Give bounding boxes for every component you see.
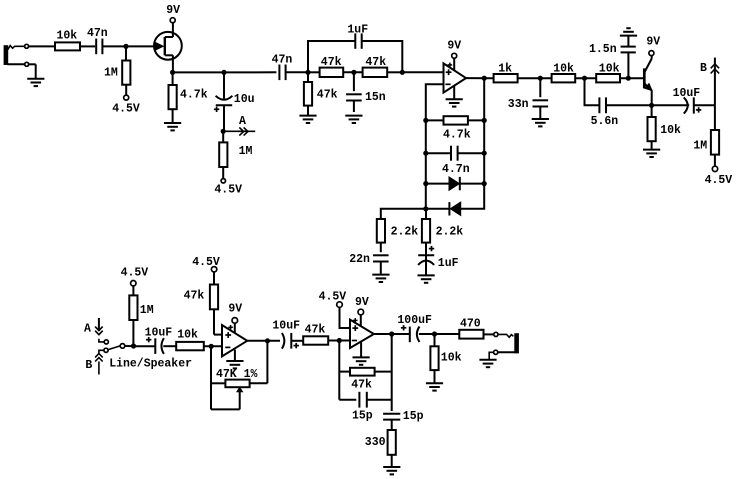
- terminal 9V (Q2): [646, 35, 660, 55]
- terminal 4.5V (node A): [214, 179, 242, 197]
- node (Q2 base): [626, 76, 631, 81]
- resistor 10k (emitter): [648, 105, 682, 149]
- node (Q1 source): [170, 70, 175, 75]
- node (Q2 emitter): [649, 103, 654, 108]
- wire to node6: [343, 71, 362, 73]
- capacitor 1uF (electrolytic fb): [418, 243, 459, 275]
- node (10u top): [221, 70, 226, 75]
- node fb R1: [482, 118, 487, 123]
- wire U2 out: [247, 340, 280, 342]
- capacitor 4.7n (feedback): [426, 120, 484, 175]
- node (U3 out): [389, 331, 394, 336]
- ground (U2): [226, 350, 243, 369]
- svg-text:47n: 47n: [87, 27, 108, 40]
- ground (U3): [353, 342, 370, 365]
- wire 470 to jack: [484, 333, 494, 335]
- wire common to node: [125, 345, 136, 347]
- capacitor 10uF (mid, electrolytic): [272, 319, 303, 348]
- resistor 2.2k (right): [422, 209, 463, 243]
- svg-text:1M: 1M: [104, 67, 118, 80]
- resistor 330: [365, 430, 396, 466]
- wire 10k to node: [204, 345, 222, 347]
- ground (output jack): [479, 360, 496, 367]
- wire node to JFET gate: [126, 45, 155, 47]
- svg-text:9V: 9V: [355, 296, 369, 309]
- svg-text:9V: 9V: [447, 40, 461, 53]
- svg-text:10k: 10k: [441, 351, 462, 364]
- ground (33n): [532, 119, 549, 126]
- svg-text:4.5V: 4.5V: [192, 256, 220, 269]
- wire 47n to node gate: [102, 45, 126, 47]
- ground (input jack): [27, 79, 44, 86]
- svg-text:2.2k: 2.2k: [391, 226, 419, 239]
- wire 1uF top rail: [308, 41, 402, 72]
- svg-text:15p: 15p: [403, 410, 424, 423]
- svg-text:1.5n: 1.5n: [589, 43, 617, 56]
- ground (emitter 10k): [643, 150, 660, 157]
- capacitor 10u (electrolytic): [214, 72, 255, 131]
- svg-text:4.5V: 4.5V: [121, 267, 149, 280]
- wire U1 inverting: [426, 84, 444, 120]
- resistor 1M (out bias): [693, 105, 719, 166]
- svg-text:4.5V: 4.5V: [112, 102, 140, 115]
- svg-text:47k: 47k: [317, 88, 338, 101]
- capacitor 5.6n: [585, 78, 652, 128]
- resistor 470: [459, 318, 483, 339]
- svg-text:10uF: 10uF: [272, 319, 300, 332]
- svg-text:9V: 9V: [166, 4, 180, 17]
- svg-text:47K 1%: 47K 1%: [216, 368, 258, 381]
- svg-text:1M: 1M: [140, 304, 154, 317]
- ground (15n): [345, 116, 362, 123]
- node (5.6n tap): [582, 76, 587, 81]
- resistor 10k (b): [596, 63, 620, 83]
- svg-text:15p: 15p: [352, 409, 373, 422]
- node (switch common): [131, 343, 136, 348]
- resistor 47k (series 1): [308, 56, 343, 77]
- svg-text:Line/Speaker: Line/Speaker: [109, 357, 192, 370]
- svg-text:10k: 10k: [599, 63, 620, 76]
- potentiometer 47K 1%: [211, 341, 267, 410]
- capacitor 1.5n: [589, 36, 636, 79]
- wire 4.5V to op3 +: [319, 290, 350, 328]
- node (output tap): [432, 331, 437, 336]
- resistor 1M (gate bias): [104, 46, 130, 95]
- resistor 47k (shunt to gnd): [304, 72, 338, 115]
- node fb L4: [423, 206, 428, 211]
- svg-text:4.5V: 4.5V: [705, 174, 733, 187]
- wire 10k to C 47n: [80, 45, 95, 47]
- resistor 4.7k (Q1 source): [169, 72, 208, 122]
- switch common contact: [120, 344, 125, 349]
- tag B arrow (top): [700, 58, 719, 106]
- op-amp U1: [444, 63, 467, 93]
- ground (U1): [446, 86, 463, 107]
- node A (junction): [221, 129, 226, 134]
- node (15n tap): [351, 70, 356, 75]
- terminal 9V (U1): [447, 40, 461, 71]
- wire op3 fb rail: [391, 334, 393, 411]
- resistor 10k (a): [552, 63, 576, 83]
- resistor 10k (input): [55, 30, 80, 51]
- wire A to switch: [99, 339, 104, 342]
- wire 47k to node: [328, 340, 350, 342]
- transistor Q1 JFET: [154, 23, 182, 73]
- svg-text:9V: 9V: [646, 35, 660, 48]
- input jack J1: [4, 44, 36, 78]
- svg-text:A: A: [84, 323, 91, 336]
- tag B arrow (bottom): [85, 350, 103, 374]
- svg-text:B: B: [700, 62, 707, 75]
- terminal 4.5V (bottom 1M): [121, 267, 149, 286]
- svg-text:A: A: [239, 115, 246, 128]
- transistor Q2: [644, 56, 652, 106]
- node fb L3: [423, 181, 428, 186]
- ground (4.7k source): [164, 123, 181, 130]
- node (op-amp + in): [400, 70, 405, 75]
- wire fb bottom left: [381, 209, 426, 219]
- label Line/Speaker: [109, 357, 192, 370]
- resistor 2.2k (left): [377, 219, 419, 243]
- switch contact B: [104, 348, 108, 352]
- terminal 9V (Q1 drain): [166, 4, 180, 23]
- svg-text:10uF: 10uF: [673, 87, 701, 100]
- ground (1.5n, inverted): [620, 28, 637, 35]
- svg-text:47k: 47k: [365, 56, 386, 69]
- svg-text:4.7n: 4.7n: [442, 163, 470, 176]
- wire to node7: [387, 71, 402, 73]
- svg-text:5.6n: 5.6n: [591, 115, 619, 128]
- wire 1k to 10k: [518, 77, 552, 79]
- ground (22n): [372, 275, 389, 282]
- svg-text:4.7k: 4.7k: [443, 129, 471, 142]
- svg-text:10k: 10k: [553, 63, 574, 76]
- node (op3 inverting): [337, 338, 342, 343]
- svg-text:10k: 10k: [57, 30, 78, 43]
- wire node to 47n stage2: [224, 71, 276, 73]
- ground (47k shunt): [299, 116, 316, 123]
- capacitor 47n (stage 2): [272, 54, 293, 81]
- terminal 9V (U3): [355, 296, 369, 326]
- svg-text:1uF: 1uF: [438, 257, 459, 270]
- node (filter in): [305, 70, 310, 75]
- svg-text:47k: 47k: [321, 56, 342, 69]
- switch contact A: [104, 340, 108, 344]
- svg-text:1k: 1k: [498, 63, 512, 76]
- op-amp U3: [350, 318, 374, 348]
- op-amp U2: [222, 325, 247, 356]
- node fb R2: [482, 151, 487, 156]
- resistor 47k (series 2): [363, 56, 388, 77]
- resistor 10k (output load): [430, 334, 461, 383]
- wire U3 out: [374, 333, 409, 335]
- svg-text:10k: 10k: [660, 124, 681, 137]
- ground (output 10k): [426, 383, 443, 390]
- capacitor 22n: [349, 243, 388, 274]
- diode D1: [426, 153, 484, 190]
- ground (1uF fb): [418, 275, 435, 282]
- node fb R3: [482, 181, 487, 186]
- svg-text:9V: 9V: [228, 302, 242, 315]
- capacitor 15p (shunt): [383, 410, 424, 430]
- ground (330): [383, 467, 400, 474]
- svg-text:47k: 47k: [305, 323, 326, 336]
- svg-text:1uF: 1uF: [347, 24, 368, 37]
- resistor 4.7k (feedback): [426, 78, 484, 141]
- svg-text:4.7k: 4.7k: [180, 89, 208, 102]
- capacitor 15n: [346, 72, 386, 112]
- svg-text:47k: 47k: [184, 290, 205, 303]
- svg-text:10u: 10u: [234, 93, 255, 106]
- wire input to R 10k: [29, 45, 55, 47]
- node (op2 inverting): [209, 344, 214, 349]
- svg-text:100uF: 100uF: [397, 314, 432, 327]
- capacitor 1uF (feedback top): [347, 24, 368, 49]
- svg-text:22n: 22n: [349, 253, 370, 266]
- capacitor 100uF (electrolytic): [397, 314, 434, 342]
- capacitor 10uF (out, electrolytic): [652, 87, 715, 114]
- wire U1 out: [466, 77, 494, 79]
- resistor 10k (op2 in): [176, 328, 204, 350]
- node fb L1: [423, 118, 428, 123]
- node (U2 out): [265, 338, 270, 343]
- svg-text:4.5V: 4.5V: [214, 184, 242, 197]
- svg-text:47k: 47k: [351, 378, 372, 391]
- svg-text:1M: 1M: [693, 140, 707, 153]
- terminal 4.5V (out bias): [705, 166, 733, 187]
- capacitor 10uF (in, electrolytic): [136, 326, 176, 354]
- wire source row: [173, 71, 224, 73]
- capacitor 47n (input): [87, 27, 108, 54]
- node (33n tap): [538, 76, 543, 81]
- tag A arrow: [223, 115, 255, 136]
- output jack J2: [489, 332, 519, 359]
- svg-text:15n: 15n: [365, 91, 386, 104]
- wire to base node: [620, 77, 644, 79]
- wire node7 to op-amp: [402, 71, 443, 73]
- svg-text:10k: 10k: [177, 328, 198, 341]
- node fb L2: [423, 151, 428, 156]
- svg-text:10uF: 10uF: [145, 326, 173, 339]
- svg-text:47n: 47n: [272, 54, 293, 67]
- resistor 1k: [494, 63, 518, 83]
- resistor 47k (op3 feedback): [339, 341, 391, 400]
- svg-text:330: 330: [365, 436, 386, 449]
- wire to node10: [575, 77, 596, 79]
- svg-text:1M: 1M: [239, 145, 253, 158]
- capacitor 33n: [508, 78, 548, 118]
- tag A arrow (bottom): [84, 318, 103, 336]
- terminal 4.5V (gate bias): [112, 95, 140, 115]
- diode D2: [426, 184, 484, 216]
- resistor 47k (4.5V bias op2): [184, 256, 222, 334]
- svg-text:4.5V: 4.5V: [319, 290, 347, 303]
- node (U1 out): [482, 76, 487, 81]
- resistor 1M (bottom bias): [129, 286, 153, 346]
- resistor 1M (node A): [219, 131, 252, 178]
- terminal 9V (U2): [228, 302, 242, 333]
- wire node to 470: [435, 333, 460, 335]
- svg-text:470: 470: [460, 318, 481, 331]
- resistor 47k (op3 in): [303, 323, 328, 344]
- switch lever: [108, 346, 120, 350]
- wire 47n to node5: [286, 71, 308, 73]
- svg-text:33n: 33n: [508, 98, 529, 111]
- node (gate bias): [123, 44, 128, 49]
- svg-text:B: B: [85, 359, 92, 372]
- svg-text:2.2k: 2.2k: [436, 226, 464, 239]
- capacitor 15p (series): [339, 392, 391, 423]
